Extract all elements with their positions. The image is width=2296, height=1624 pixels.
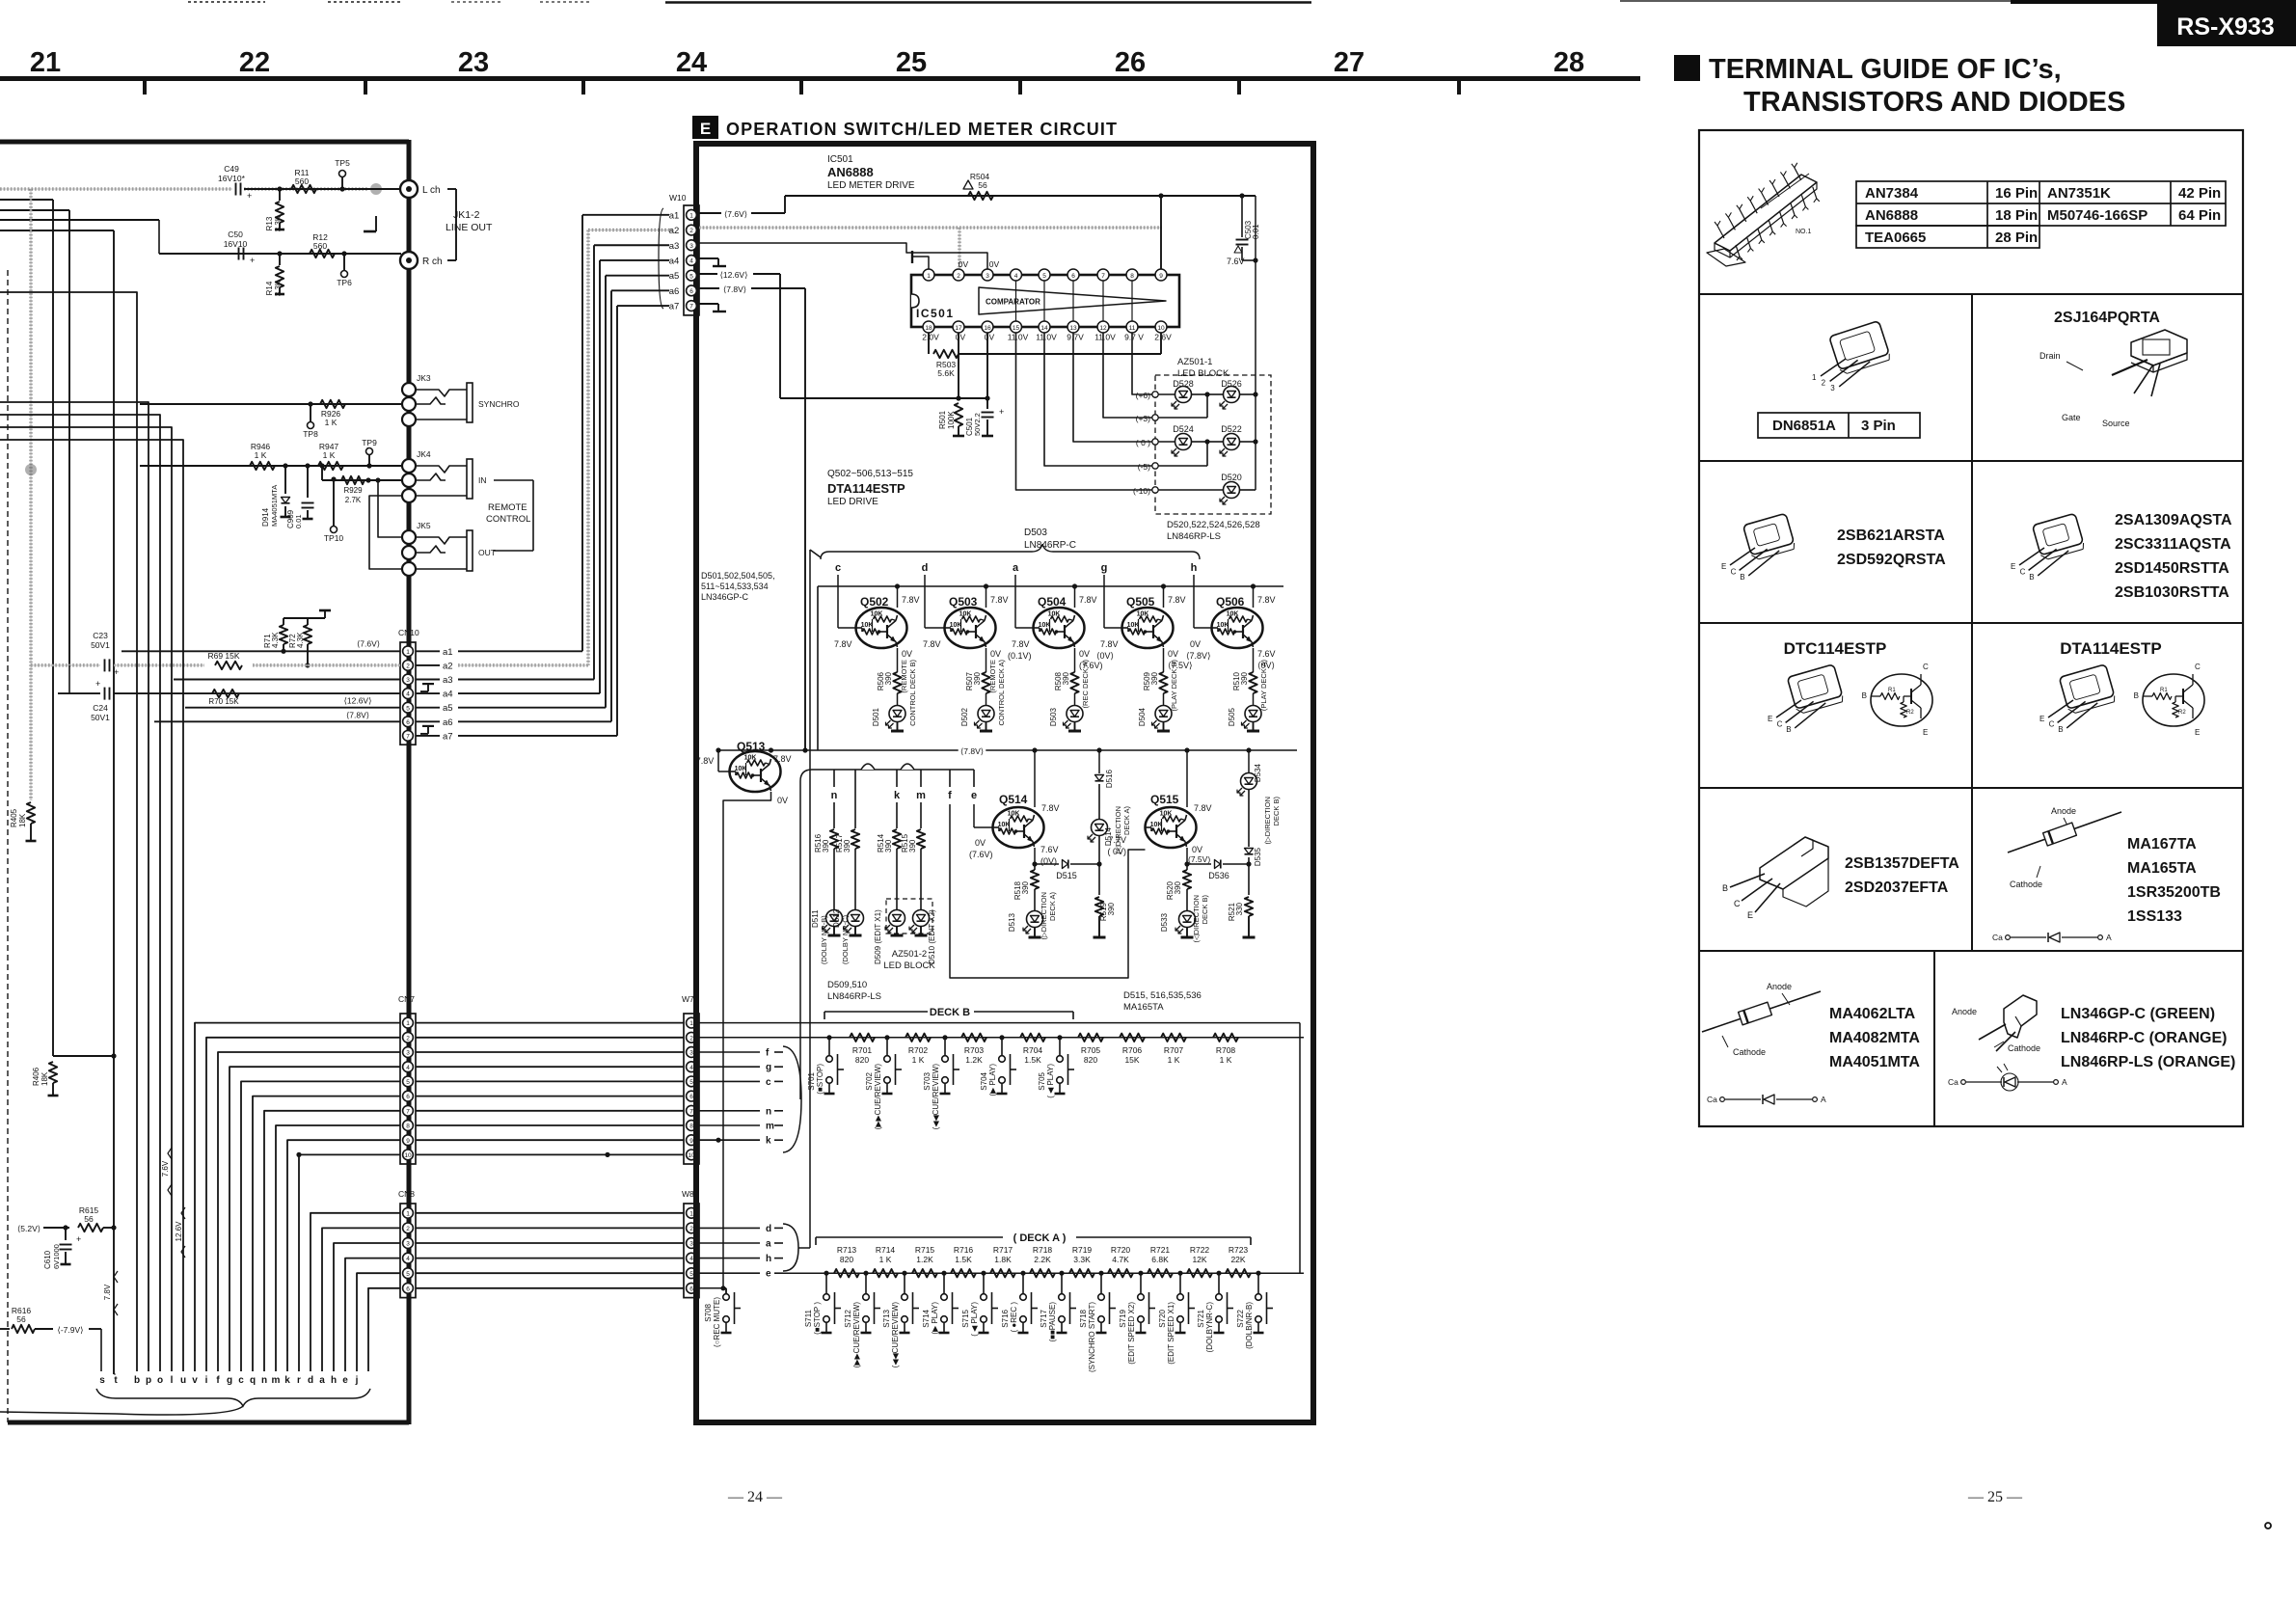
harness under-brace <box>0 1389 370 1415</box>
svg-text:a6: a6 <box>443 717 453 728</box>
svg-text:0V: 0V <box>989 259 1000 269</box>
svg-text:S703: S703 <box>923 1071 932 1090</box>
svg-text:1: 1 <box>689 1020 693 1027</box>
transistor Q513 <box>730 740 792 792</box>
7.8V emitter bus <box>818 586 1283 750</box>
svg-text:56: 56 <box>84 1214 94 1224</box>
ground below D512 <box>850 927 862 936</box>
svg-text:AN7351K: AN7351K <box>2047 185 2111 202</box>
svg-text:d: d <box>308 1375 313 1386</box>
LED D502 <box>960 706 994 729</box>
wire IC pin9 to rail <box>1158 193 1163 269</box>
jack R ch <box>400 252 443 269</box>
connector CN8 <box>398 1189 416 1298</box>
DECK B bracket <box>824 1007 1073 1019</box>
capacitor C909 0.01 <box>286 463 314 528</box>
svg-text:Cathode: Cathode <box>2008 1043 2040 1053</box>
voltage label right Q504 <box>1079 649 1103 670</box>
resistor R615 56 <box>43 1205 117 1232</box>
svg-text:DTA114ESTP: DTA114ESTP <box>827 481 905 496</box>
svg-text:DECK B): DECK B) <box>1272 796 1281 826</box>
resistor R514 390 <box>877 829 901 853</box>
svg-text:50V1: 50V1 <box>91 640 110 650</box>
svg-text:L ch: L ch <box>422 185 441 196</box>
svg-text:10K: 10K <box>1217 622 1229 629</box>
voltage tag 12.6V on harness <box>175 1207 185 1258</box>
diode MA167TA drawing <box>1992 806 2221 942</box>
svg-text:15: 15 <box>1013 325 1020 332</box>
svg-text:E: E <box>2011 562 2015 571</box>
svg-text:1: 1 <box>406 1210 410 1217</box>
svg-text:R706: R706 <box>1122 1045 1143 1055</box>
svg-text:(■■PAUSE): (■■PAUSE) <box>1048 1302 1057 1342</box>
svg-text:390: 390 <box>1174 880 1182 894</box>
wire R70 a4 <box>58 665 400 693</box>
svg-text:D509 (EDIT X1): D509 (EDIT X1) <box>874 909 882 964</box>
svg-text:R501: R501 <box>938 410 947 429</box>
jack JK4 <box>402 449 487 502</box>
svg-text:TERMINAL GUIDE OF IC’s,: TERMINAL GUIDE OF IC’s, <box>1709 54 2062 85</box>
capacitor C501 50V2.2 <box>965 398 1004 436</box>
svg-text:1: 1 <box>689 212 693 219</box>
svg-text:MA4051MTA: MA4051MTA <box>270 485 279 527</box>
svg-text:C: C <box>1923 663 1929 671</box>
svg-text:a4: a4 <box>443 690 453 700</box>
transistor package 2SA1309AQSTA drawing <box>2011 512 2232 601</box>
node letter g <box>1101 562 1108 574</box>
svg-text:R714: R714 <box>876 1245 896 1255</box>
junction on CN7 wire 10 <box>296 1152 609 1157</box>
wire Q505 collector <box>1163 648 1165 672</box>
wire net a3 CN10 to W10 <box>416 245 669 686</box>
voltage labels Q515 right <box>1188 845 1210 864</box>
diode MA4062LTA drawing <box>1702 982 1920 1104</box>
svg-text:MA165TA: MA165TA <box>2127 860 2197 877</box>
svg-text:D533: D533 <box>1160 912 1169 932</box>
resistor R14 3.3K <box>265 254 284 296</box>
svg-text:⟨12.6V⟩: ⟨12.6V⟩ <box>720 270 748 280</box>
diode D536 <box>1187 860 1249 881</box>
wire to LED D502 <box>986 693 987 706</box>
svg-text:R707: R707 <box>1164 1045 1184 1055</box>
svg-text:11.0V: 11.0V <box>1008 333 1029 342</box>
svg-text:13: 13 <box>1069 325 1077 332</box>
svg-text:S702: S702 <box>865 1071 874 1090</box>
test point TP10 <box>324 476 344 543</box>
svg-text:22K: 22K <box>1230 1255 1245 1264</box>
Q513 collector wire <box>723 792 788 1288</box>
stray mark bottom right <box>2265 1523 2271 1529</box>
node (-10) <box>1133 486 1158 496</box>
svg-text:390: 390 <box>1150 671 1159 685</box>
resistor R405 18K <box>10 802 37 841</box>
svg-text:3: 3 <box>689 1241 693 1248</box>
wire IC pin14 to -5 row <box>1044 333 1155 466</box>
svg-text:B: B <box>2134 691 2139 700</box>
resistor R947 1K <box>318 442 343 470</box>
svg-text:(-10): (-10) <box>1133 486 1150 496</box>
DN6851A label box <box>1758 413 1920 438</box>
resistor R406 18K <box>32 1053 117 1096</box>
hatched signal vertical <box>30 189 33 800</box>
D509 510 labels <box>827 980 881 1002</box>
wire R616 corner to letter s <box>100 1329 102 1371</box>
svg-text:( ◀ PLAY): ( ◀ PLAY) <box>1046 1064 1055 1098</box>
RS-X933 model banner <box>2011 0 2296 46</box>
wire R517 to LED <box>854 849 856 910</box>
label 7.6V near LED bus <box>1227 257 1245 266</box>
svg-text:DECK B): DECK B) <box>1201 894 1209 924</box>
svg-text:Anode: Anode <box>2051 806 2076 816</box>
svg-text:CONTROL: CONTROL <box>486 514 530 525</box>
wire g to Q505 base <box>1104 575 1122 628</box>
svg-text:Gate: Gate <box>2062 413 2081 422</box>
switch S719 <box>1119 1271 1155 1365</box>
svg-text:Ca: Ca <box>1948 1077 1958 1087</box>
hatched signal wire top <box>0 188 368 191</box>
node letter c <box>835 562 841 574</box>
svg-text:+: + <box>250 256 255 265</box>
svg-text:0V: 0V <box>902 649 912 659</box>
svg-text:AN6888: AN6888 <box>827 165 874 179</box>
svg-text:S711: S711 <box>804 1309 813 1327</box>
svg-text:JK3: JK3 <box>417 373 431 383</box>
resistor R521 330 <box>1228 897 1253 921</box>
svg-text:R715: R715 <box>915 1245 935 1255</box>
resistor R715 1.2K <box>912 1245 937 1277</box>
svg-text:28: 28 <box>1553 47 1584 78</box>
capacitor C49 <box>218 164 252 201</box>
voltage label left Q506 <box>1186 639 1211 661</box>
svg-text:4: 4 <box>689 1256 693 1262</box>
svg-text:R405: R405 <box>10 808 18 827</box>
resistor R12 560 <box>310 232 335 257</box>
svg-text:1 K: 1 K <box>879 1255 892 1264</box>
ruler tick marks <box>145 81 1459 95</box>
resistor R518 390 <box>1013 864 1039 900</box>
svg-text:LN346GP-C (GREEN): LN346GP-C (GREEN) <box>2061 1006 2215 1022</box>
svg-text:LED BLOCK: LED BLOCK <box>1177 368 1229 379</box>
svg-text:390: 390 <box>908 839 917 853</box>
svg-text:1.8K: 1.8K <box>994 1255 1012 1264</box>
svg-text:a2: a2 <box>443 661 453 671</box>
svg-text:10: 10 <box>404 1152 412 1159</box>
svg-text:LN846RP-C (ORANGE): LN846RP-C (ORANGE) <box>2061 1030 2227 1046</box>
svg-text:d: d <box>922 562 929 574</box>
svg-text:TEA0665: TEA0665 <box>1865 230 1926 246</box>
svg-text:6: 6 <box>689 1094 693 1100</box>
svg-text:R720: R720 <box>1111 1245 1131 1255</box>
svg-text:LED DRIVE: LED DRIVE <box>827 497 878 507</box>
svg-text:390: 390 <box>1021 880 1030 894</box>
svg-text:2SD592QRSTA: 2SD592QRSTA <box>1837 552 1946 568</box>
wire R515 to LED <box>920 849 922 910</box>
svg-text:2SB1357DEFTA: 2SB1357DEFTA <box>1845 855 1959 872</box>
left edge step wire 2 <box>0 209 69 211</box>
svg-text:R718: R718 <box>1033 1245 1053 1255</box>
svg-text:c: c <box>766 1077 771 1088</box>
svg-text:⟨0V⟩: ⟨0V⟩ <box>1096 651 1114 661</box>
diode D914 <box>261 466 291 527</box>
svg-text:R406: R406 <box>32 1067 41 1086</box>
svg-text:⟨-7.9V⟩: ⟨-7.9V⟩ <box>58 1325 84 1335</box>
svg-text:a3: a3 <box>443 675 453 686</box>
switch S718 <box>1079 1271 1116 1372</box>
wire W7 letter f <box>699 1048 783 1059</box>
harness letter labels <box>99 1375 358 1386</box>
resistor R520 390 <box>1166 864 1191 900</box>
jack JK5 <box>402 521 496 576</box>
voltage labels Q515 left <box>1107 835 1126 856</box>
svg-text:LN846RP-LS (ORANGE): LN846RP-LS (ORANGE) <box>2061 1054 2235 1070</box>
svg-text:C23: C23 <box>93 631 108 640</box>
LED D514 <box>1088 820 1113 847</box>
switch S715 <box>961 1271 998 1337</box>
svg-text:D914: D914 <box>261 507 270 527</box>
svg-text:22: 22 <box>239 47 270 78</box>
wire R514 to LED <box>896 849 898 910</box>
svg-text:LN846RP-LS: LN846RP-LS <box>1167 531 1221 542</box>
svg-text:AZ501-1: AZ501-1 <box>1177 357 1212 367</box>
transistor Q504 <box>1034 595 1085 648</box>
resistor R510 390 <box>1232 671 1257 693</box>
voltage label left Q503 <box>923 639 941 649</box>
svg-text:b: b <box>134 1375 140 1386</box>
capacitor C23 50V1 <box>91 631 119 677</box>
svg-text:4.3K: 4.3K <box>296 632 305 648</box>
resistor R720 4.7K <box>1108 1245 1133 1277</box>
svg-text:JK5: JK5 <box>417 521 431 530</box>
resistor R70 15K <box>208 690 239 706</box>
svg-text:R1: R1 <box>1888 688 1896 693</box>
resistor R509 390 <box>1143 671 1168 693</box>
svg-text:D522: D522 <box>1221 424 1242 434</box>
svg-text:(◀◀CUE/REVIEW): (◀◀CUE/REVIEW) <box>891 1302 900 1368</box>
test point TP9 <box>362 438 377 466</box>
svg-text:(PLAY DECK B): (PLAY DECK B) <box>1170 660 1178 712</box>
svg-text:64 Pin: 64 Pin <box>2178 207 2221 224</box>
deck B right link <box>1299 1023 1301 1274</box>
svg-text:7.8V: 7.8V <box>103 1284 112 1300</box>
svg-text:g: g <box>766 1063 771 1073</box>
svg-text:6: 6 <box>689 1286 693 1292</box>
svg-text:D510 (EDIT X2): D510 (EDIT X2) <box>928 909 936 964</box>
svg-text:a7: a7 <box>443 731 453 742</box>
switch S722 <box>1236 1271 1273 1349</box>
svg-text:k: k <box>284 1375 290 1386</box>
MOSFET package 2SJ164PQRTA drawing <box>2039 310 2187 428</box>
resistor R723 22K <box>1226 1245 1251 1277</box>
function label Q506 <box>1259 660 1268 712</box>
voltage label left Q502 <box>834 639 852 649</box>
svg-text:(▷DIRECTION: (▷DIRECTION <box>1263 797 1272 845</box>
svg-text:10K: 10K <box>861 622 874 629</box>
svg-text:7.8V: 7.8V <box>1168 595 1186 605</box>
svg-text:a4: a4 <box>669 256 680 266</box>
node letter k <box>894 770 901 801</box>
svg-text:CONTROL DECK A): CONTROL DECK A) <box>997 660 1006 726</box>
svg-text:Source: Source <box>2102 419 2130 428</box>
resistor R501 100K <box>938 403 964 436</box>
svg-text:6: 6 <box>406 719 410 726</box>
wire a to Q504 base <box>1015 575 1034 628</box>
svg-text:820: 820 <box>1084 1055 1097 1065</box>
wire Q514 emitter down <box>1032 848 1037 867</box>
svg-text:D512: D512 <box>832 908 841 928</box>
svg-text:9: 9 <box>1159 273 1163 280</box>
svg-text:2SC3311AQSTA: 2SC3311AQSTA <box>2115 536 2231 553</box>
wire net a4 CN10 to W10 <box>416 260 669 700</box>
wire Q502 emitter to bus <box>895 583 920 608</box>
node letter a <box>1013 562 1019 574</box>
svg-text:e: e <box>971 790 977 801</box>
dashed box AZ501-2 <box>886 899 932 934</box>
node (-5) <box>1138 462 1158 472</box>
function label Q504 <box>1081 660 1090 709</box>
svg-text:⟨7.8V⟩: ⟨7.8V⟩ <box>346 710 369 719</box>
svg-text:n: n <box>831 790 838 801</box>
wire to JK3 <box>140 403 402 405</box>
svg-text:a6: a6 <box>669 286 680 297</box>
svg-text:16V10*: 16V10* <box>218 174 246 183</box>
svg-text:DECK A): DECK A) <box>1048 892 1057 922</box>
svg-text:MA4062LTA: MA4062LTA <box>1829 1006 1916 1022</box>
svg-text:S708: S708 <box>704 1303 713 1321</box>
svg-text:(0.1V): (0.1V) <box>1008 651 1032 661</box>
ruler numbers 21-28 <box>30 47 1584 78</box>
svg-text:2.0V: 2.0V <box>922 333 939 342</box>
svg-text:NO.1: NO.1 <box>1796 229 1811 235</box>
wire a3 stub <box>174 679 400 681</box>
svg-text:28 Pin: 28 Pin <box>1995 230 2038 246</box>
resistor R516 390 <box>814 829 838 853</box>
switch S717 <box>1040 1271 1076 1342</box>
svg-text:a: a <box>1013 562 1019 574</box>
svg-text:9.7 V: 9.7 V <box>1124 333 1144 342</box>
svg-text:m: m <box>272 1375 281 1386</box>
svg-text:0V: 0V <box>1192 845 1202 854</box>
wire W7 letter m <box>699 1122 783 1132</box>
svg-text:+: + <box>999 407 1004 417</box>
wire IC pin12 to +3 row <box>1103 333 1155 418</box>
svg-text:S717: S717 <box>1040 1309 1048 1327</box>
svg-text:IC501: IC501 <box>916 307 955 320</box>
svg-text:j: j <box>355 1375 359 1386</box>
svg-text:9.7V: 9.7V <box>1067 333 1084 342</box>
svg-text:⟨7.6V⟩: ⟨7.6V⟩ <box>724 209 747 219</box>
svg-text:MA165TA: MA165TA <box>1123 1002 1164 1013</box>
wire D514 to junction <box>1096 836 1101 867</box>
svg-text:R929: R929 <box>343 486 363 495</box>
wire D535 junction <box>1246 857 1251 895</box>
direction label deck B play <box>1263 796 1281 844</box>
wire Q506 emitter to bus <box>1251 583 1276 608</box>
wire bus to D534 <box>1246 747 1251 772</box>
ground below D505 <box>1247 722 1259 732</box>
table vertical divider lower <box>1933 951 1935 1126</box>
svg-text:(▷DIRECTION: (▷DIRECTION <box>1040 892 1048 940</box>
wire net a7 CN10 to W10 <box>416 306 669 742</box>
resistor R503 5.6K <box>929 333 1161 378</box>
svg-text:1SS133: 1SS133 <box>2127 908 2182 925</box>
resistor R13 3.3K <box>265 189 284 231</box>
svg-text:6: 6 <box>406 1094 410 1100</box>
svg-text:REMOTE: REMOTE <box>488 502 527 513</box>
svg-text:5: 5 <box>689 273 693 280</box>
svg-text:(-5): (-5) <box>1138 462 1150 472</box>
voltage label -7.9V <box>54 1325 86 1336</box>
harness wires CN7 to letters <box>195 1023 400 1371</box>
svg-text:5.6K: 5.6K <box>937 368 955 378</box>
switch S704 <box>980 1035 1016 1096</box>
ground below D510 <box>915 927 928 936</box>
svg-text:SYNCHRO: SYNCHRO <box>478 399 520 409</box>
node letter e <box>971 770 977 801</box>
node letter f <box>948 770 952 801</box>
ground at W10 pin7 <box>699 304 726 311</box>
resistor R507 390 <box>965 671 990 693</box>
svg-text:C: C <box>2195 663 2201 671</box>
svg-text:12.6V: 12.6V <box>175 1221 183 1242</box>
svg-text:( ●REC ): ( ●REC ) <box>1010 1302 1018 1333</box>
svg-text:A: A <box>1821 1095 1826 1104</box>
svg-text:IN: IN <box>478 475 487 485</box>
svg-text:⟨5.2V⟩: ⟨5.2V⟩ <box>17 1224 41 1233</box>
W10 pin labels a1-a7 <box>659 208 679 312</box>
deck B wire 2 <box>699 1037 1304 1039</box>
LED D522 <box>1207 424 1258 456</box>
switch S703 <box>923 1035 959 1129</box>
svg-text:(■STOP ): (■STOP ) <box>813 1302 822 1335</box>
svg-text:R ch: R ch <box>422 257 443 267</box>
wire IC pin15 to -10 row <box>1016 333 1156 490</box>
svg-text:a5: a5 <box>443 703 453 714</box>
svg-text:(■STOP): (■STOP) <box>816 1064 824 1095</box>
svg-text:e: e <box>342 1375 348 1386</box>
diode D516 <box>1095 769 1115 788</box>
svg-text:14: 14 <box>1040 325 1048 332</box>
svg-text:17: 17 <box>955 325 962 332</box>
svg-text:LN846RP-C: LN846RP-C <box>1024 540 1076 551</box>
left box right border <box>407 140 412 1424</box>
svg-text:S716: S716 <box>1001 1309 1010 1327</box>
wire W10 pin3 to IC pin3 <box>699 243 987 269</box>
svg-text:R2: R2 <box>2178 710 2186 716</box>
node R14 junction <box>277 251 282 256</box>
svg-text:(▶ PLAY): (▶ PLAY) <box>988 1064 997 1096</box>
svg-text:S704: S704 <box>980 1071 988 1090</box>
svg-text:OPERATION SWITCH/LED METER CIR: OPERATION SWITCH/LED METER CIRCUIT <box>726 120 1118 139</box>
ground below D509 <box>891 927 904 936</box>
svg-text:k: k <box>766 1136 771 1147</box>
wire W8 pin6 to REC MUTE <box>699 1286 726 1293</box>
W8 bundle brace <box>783 550 821 1271</box>
svg-text:+: + <box>95 679 100 689</box>
svg-text:7: 7 <box>689 304 693 311</box>
ruler line <box>0 76 1640 81</box>
svg-text:S712: S712 <box>844 1309 852 1327</box>
svg-text:1 K: 1 K <box>255 450 267 460</box>
svg-text:D505: D505 <box>1228 707 1236 726</box>
capacitor C503 0.01 <box>1234 193 1260 262</box>
wire C49 to jack <box>244 188 401 190</box>
svg-text:390: 390 <box>884 839 893 853</box>
svg-text:+: + <box>114 667 119 677</box>
switch S712 <box>844 1271 880 1368</box>
svg-text:2SB621ARSTA: 2SB621ARSTA <box>1837 528 1945 544</box>
ground below D501 <box>891 722 904 732</box>
svg-text:R702: R702 <box>908 1045 929 1055</box>
